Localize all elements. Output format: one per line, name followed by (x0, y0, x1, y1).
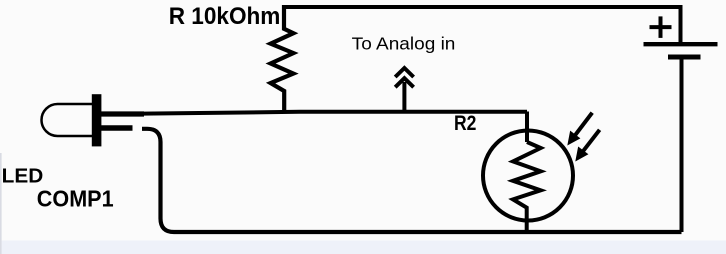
light arrow 1 (568, 113, 592, 145)
resistor R1 (R 10kOhm) (271, 5, 294, 113)
battery short plate (negative) (668, 55, 701, 60)
LED COMP1 body dome (42, 104, 93, 136)
svg-text:R 10kOhm: R 10kOhm (169, 3, 281, 30)
svg-text:R2: R2 (454, 111, 476, 135)
bottom page strip (0, 241, 726, 254)
svg-text:COMP1: COMP1 (37, 186, 114, 212)
battery plus sign (650, 16, 672, 38)
svg-text:To Analog in: To Analog in (352, 33, 456, 53)
wire top: resistor top to battery positive (284, 7, 681, 42)
photoresistor R2 zigzag (513, 142, 541, 232)
left image-edge shading (0, 153, 2, 254)
light arrow 2 (576, 130, 600, 161)
wire: LED cathode down and bottom rail to battery negative (142, 129, 682, 232)
photoresistor R2 drop wire (525, 112, 529, 143)
wire mid: LED anode to R2 (143, 112, 527, 114)
LED cathode lead (101, 125, 133, 130)
wire right: battery negative down to bottom wire (680, 59, 684, 232)
photoresistor R2 circle (483, 131, 573, 221)
LED anode lead (101, 111, 144, 116)
LED flange bar (92, 94, 102, 146)
analog-in arrow (double chevron up) (395, 68, 413, 111)
svg-text:LED: LED (2, 166, 44, 188)
battery long plate (positive) (644, 42, 718, 46)
